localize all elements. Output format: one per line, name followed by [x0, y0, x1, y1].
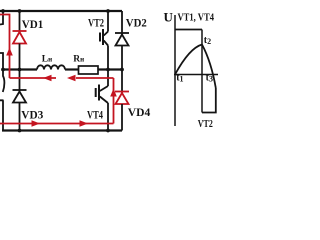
svg-text:VT1, VT4: VT1, VT4	[178, 13, 215, 24]
svg-text:VD4: VD4	[128, 107, 151, 119]
svg-text:VD3: VD3	[21, 109, 43, 121]
wire VD4 branch lower	[121, 104, 123, 131]
wire current path segment up past VD4 (red)	[113, 78, 115, 124]
arrow current rightwards on bottom segment (left)	[32, 120, 41, 126]
svg-text:VD2: VD2	[126, 18, 147, 30]
transistor VT1 collector stub (cut off at left edge)	[0, 11, 3, 25]
svg-text:U: U	[164, 9, 174, 24]
graph current fall curve after t2	[202, 45, 216, 89]
svg-text:VT4: VT4	[87, 110, 103, 122]
node junction VD4 cathode to load rail	[120, 68, 124, 72]
node junction VD1 anode to load rail	[18, 68, 22, 72]
node junction top-left rail	[1, 9, 5, 13]
node junction VT4 collector to load rail	[106, 68, 110, 72]
wire VD2 branch upper	[121, 11, 123, 35]
graph voltage positive level	[175, 29, 202, 31]
diode VD2	[115, 33, 129, 46]
node junction VD1 cathode to top rail	[18, 9, 22, 13]
arrow current leftwards on middle segment right	[67, 75, 76, 81]
svg-text:t2: t2	[204, 35, 211, 46]
wire current path bottom segment (red)	[0, 123, 114, 125]
node junction VT4 emitter to bottom rail	[106, 129, 110, 133]
svg-text:VD1: VD1	[22, 19, 44, 31]
svg-text:t1: t1	[176, 73, 183, 84]
wire current path middle segment right (red)	[76, 77, 114, 79]
wire current path segment up past VD1 to top rail (red)	[0, 15, 10, 79]
arrow current rightwards on bottom segment (right)	[80, 120, 89, 126]
wire load rail left	[2, 68, 37, 70]
graph voltage drop at t2	[201, 30, 203, 113]
graph voltage negative level	[202, 88, 216, 113]
transistor VT1 emitter stub (cut off at left edge)	[0, 53, 3, 70]
graph voltage axis U	[174, 15, 176, 126]
graph time axis	[174, 74, 218, 76]
svg-text:Rн: Rн	[73, 55, 84, 65]
wire bottom DC rail	[2, 129, 122, 131]
diode VD3	[13, 90, 27, 103]
arrow current up through VD4	[110, 89, 117, 97]
svg-text:t3: t3	[206, 73, 213, 84]
wire VD1 branch lower	[19, 44, 21, 70]
wire current path middle segment left (red)	[10, 77, 57, 79]
resistor Rn	[79, 66, 99, 74]
svg-text:VT2: VT2	[198, 119, 213, 130]
diode VD1 (red, conducting)	[13, 31, 27, 44]
transistor VT4 (IGBT)	[96, 70, 108, 131]
graph current rise curve t1 to t2	[175, 45, 202, 75]
arrow current up through VD1	[6, 48, 13, 56]
node junction left leg midpoint	[1, 68, 5, 72]
arrow current leftwards on middle segment left	[43, 75, 52, 81]
transistor VT2 (IGBT)	[100, 11, 108, 70]
transistor VT3 collector stub (cut off at left edge)	[3, 70, 5, 93]
svg-text:Lн: Lн	[42, 55, 52, 65]
wire between Ln and Rn	[65, 68, 79, 70]
wire VD2 branch lower	[121, 46, 123, 70]
inductor Ln	[37, 65, 65, 69]
wire load rail right	[98, 68, 122, 70]
node junction VD3 anode to bottom rail	[18, 129, 22, 133]
diode VD4 (red, conducting)	[115, 92, 129, 105]
transistor VT3 emitter stub (cut off at left edge)	[0, 100, 4, 130]
wire VD3 branch lower	[19, 103, 21, 131]
wire VD1 branch upper	[19, 11, 21, 32]
wire VD4 branch upper	[121, 70, 123, 94]
node junction VT2 collector to top rail	[106, 9, 110, 13]
wire VD3 branch upper	[19, 70, 21, 92]
wire top DC rail	[0, 10, 122, 12]
svg-text:VT2: VT2	[88, 18, 104, 30]
